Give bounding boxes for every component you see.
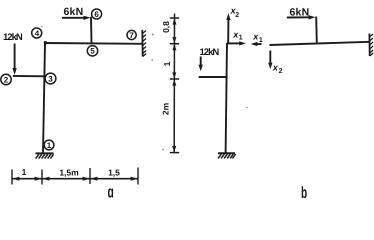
wire column (b) xyxy=(226,43,227,153)
redundant x1 arrow right (left part) xyxy=(227,42,242,44)
wire beam (b) xyxy=(270,42,370,45)
force 12kN label (a) xyxy=(3,32,23,43)
node 1 xyxy=(44,140,54,150)
dimension label 1 (b) xyxy=(162,61,172,66)
svg-text:3: 3 xyxy=(48,74,53,83)
svg-text:2: 2 xyxy=(235,12,239,19)
dimension label 2m (b) xyxy=(161,102,171,115)
force 6kN arrow (b) xyxy=(287,16,311,18)
dimension label 1,5m (a) xyxy=(59,168,79,178)
dimension label 1 (a) xyxy=(22,167,27,177)
node 6 xyxy=(92,9,102,19)
scan speckles xyxy=(41,26,248,151)
ground fixed support at node 1 xyxy=(36,152,54,154)
redundant x1 arrow left (right part) xyxy=(255,43,262,45)
svg-text:12kN: 12kN xyxy=(200,47,220,58)
force 6kN arrow (a) xyxy=(62,17,86,19)
svg-text:ɑ: ɑ xyxy=(108,182,114,202)
svg-text:0,8: 0,8 xyxy=(161,21,171,33)
wire stub above beam (b) xyxy=(315,17,318,44)
redundant x2 arrow up (left part) xyxy=(227,18,229,43)
svg-text:1,5m: 1,5m xyxy=(59,168,79,178)
force 12kN arrow (b) xyxy=(200,57,202,67)
force 6kN label (b) xyxy=(290,6,310,18)
svg-text:1: 1 xyxy=(22,167,27,177)
vertical dimension line (b) xyxy=(170,14,179,153)
redundant x2 arrow down (right part) xyxy=(269,51,271,65)
label x2 bottom xyxy=(272,62,283,75)
wire beam 4-5-7 xyxy=(44,42,142,45)
ground fixed support (b) xyxy=(218,152,235,154)
node 7 xyxy=(127,30,136,39)
label x1 left xyxy=(232,29,243,41)
dimension line (a) xyxy=(12,178,138,180)
force 6kN label (a) xyxy=(64,6,84,18)
svg-text:7: 7 xyxy=(129,31,134,40)
svg-text:4: 4 xyxy=(35,29,40,38)
node 2 xyxy=(1,74,11,84)
force 12kN label (b) xyxy=(200,47,220,58)
svg-text:1: 1 xyxy=(259,37,263,44)
wall support at node 7 xyxy=(141,30,143,57)
svg-text:5: 5 xyxy=(90,47,95,56)
svg-text:6: 6 xyxy=(94,10,99,19)
dimension label 1,5 (a) xyxy=(108,168,120,178)
svg-text:12kN: 12kN xyxy=(3,32,23,43)
wire member 2-3 xyxy=(13,75,46,77)
svg-text:1,5: 1,5 xyxy=(108,168,120,178)
dimension label 0,8 (b) xyxy=(161,21,171,33)
svg-text:b: b xyxy=(301,183,307,202)
caption b xyxy=(301,183,307,202)
node 5 xyxy=(87,46,97,56)
svg-text:1: 1 xyxy=(239,35,243,42)
label x2 top xyxy=(230,6,240,19)
svg-text:2: 2 xyxy=(4,75,9,84)
svg-text:6kN: 6kN xyxy=(64,6,84,18)
svg-text:1: 1 xyxy=(47,141,52,150)
wire stub above node 5 xyxy=(90,17,93,44)
svg-text:2: 2 xyxy=(279,68,283,75)
node joint dot at 4 xyxy=(44,41,47,44)
wire column 1-3-4 xyxy=(43,43,45,153)
svg-text:1: 1 xyxy=(162,61,172,66)
svg-text:2m: 2m xyxy=(161,102,171,115)
label x1 right xyxy=(252,31,263,44)
caption a xyxy=(108,182,114,202)
wall support right (b) xyxy=(368,34,370,57)
wire cantilever member (b) xyxy=(199,76,228,78)
node 4 xyxy=(32,28,42,38)
node 3 xyxy=(45,73,56,84)
force 12kN arrow (a) xyxy=(14,44,16,71)
